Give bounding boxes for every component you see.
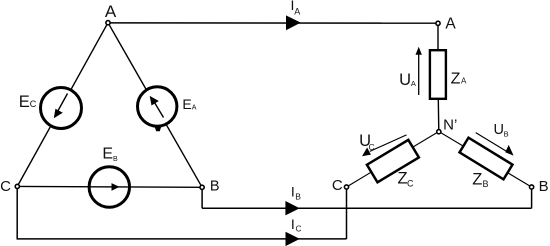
svg-text:A: A: [461, 77, 467, 86]
current arrow I_C: [286, 232, 300, 246]
wire top run from delta node A to wye node A: [108, 22, 438, 24]
svg-text:E: E: [19, 93, 30, 111]
svg-text:A: A: [445, 16, 456, 33]
svg-text:E: E: [182, 96, 191, 112]
svg-text:B: B: [113, 156, 118, 163]
wire B wye up from I_B run: [531, 187, 533, 208]
svg-text:B: B: [539, 178, 549, 195]
current arrow I_B: [285, 201, 299, 215]
svg-text:C: C: [296, 225, 302, 234]
source E_B circle: [89, 167, 129, 207]
wire C wye down to I_C run: [346, 187, 348, 239]
svg-text:E: E: [102, 146, 113, 163]
svg-text:A: A: [192, 105, 197, 112]
node A wye: [436, 21, 440, 25]
node B delta: [200, 185, 204, 189]
source E_B arrowhead: [112, 183, 120, 191]
svg-text:A: A: [411, 79, 416, 88]
wire A wye down to Z_A: [437, 23, 439, 50]
voltage arrow U_A: [416, 47, 422, 95]
wire bottom I_C run: [17, 238, 347, 240]
svg-text:C: C: [407, 178, 414, 188]
voltage arrow U_C: [362, 135, 407, 156]
svg-text:U: U: [493, 122, 503, 138]
wire B delta down: [201, 187, 203, 208]
wire C delta down: [16, 186, 18, 239]
voltage arrow U_B: [476, 133, 514, 156]
svg-text:I: I: [291, 183, 295, 199]
svg-text:B: B: [504, 130, 509, 139]
svg-text:A: A: [105, 2, 117, 21]
svg-text:B: B: [482, 179, 488, 189]
svg-text:Z: Z: [472, 170, 482, 188]
wire I_B run: [202, 207, 531, 209]
impedance Z_C: [367, 140, 419, 182]
impedance Z_B: [460, 138, 513, 180]
source E_C circle: [41, 88, 82, 129]
node B wye: [530, 185, 534, 189]
wire delta side C-B: [17, 185, 202, 188]
wire through E_B: [88, 186, 131, 188]
svg-text:Z: Z: [451, 71, 461, 88]
svg-text:C: C: [369, 142, 375, 152]
wire Z_A down to N': [437, 100, 440, 132]
svg-text:U: U: [399, 71, 411, 89]
source E_A circle: [138, 87, 177, 126]
svg-text:A: A: [294, 6, 300, 16]
current arrow I_A: [286, 15, 301, 30]
source E_A arrow: [150, 96, 164, 118]
source E_C arrow: [54, 94, 68, 119]
svg-text:I: I: [291, 216, 295, 232]
svg-text:B: B: [210, 179, 220, 195]
svg-text:N’: N’: [443, 117, 457, 134]
node C delta: [15, 184, 19, 188]
impedance Z_A: [430, 50, 446, 99]
wire N' to C wye: [347, 132, 439, 188]
wire delta side A-C: [17, 23, 108, 187]
wire delta side A-B: [108, 23, 202, 188]
svg-text:C: C: [30, 99, 37, 109]
node A delta: [106, 21, 110, 25]
tick at bottom of E_A circle: [155, 127, 161, 131]
svg-text:C: C: [0, 178, 11, 195]
wire N' to B wye: [439, 132, 532, 188]
svg-text:B: B: [295, 191, 301, 201]
svg-text:C: C: [332, 177, 343, 194]
node C wye: [344, 185, 348, 189]
node N': [437, 130, 441, 134]
